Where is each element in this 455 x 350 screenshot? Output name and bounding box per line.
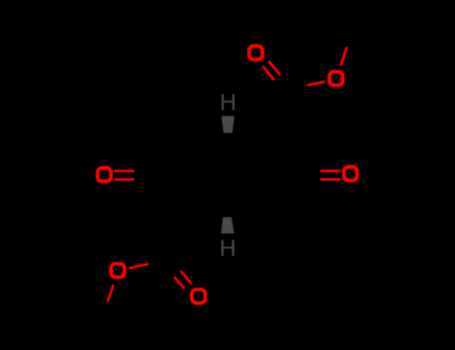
svg-text:H: H: [220, 89, 237, 115]
svg-text:H: H: [219, 235, 236, 261]
